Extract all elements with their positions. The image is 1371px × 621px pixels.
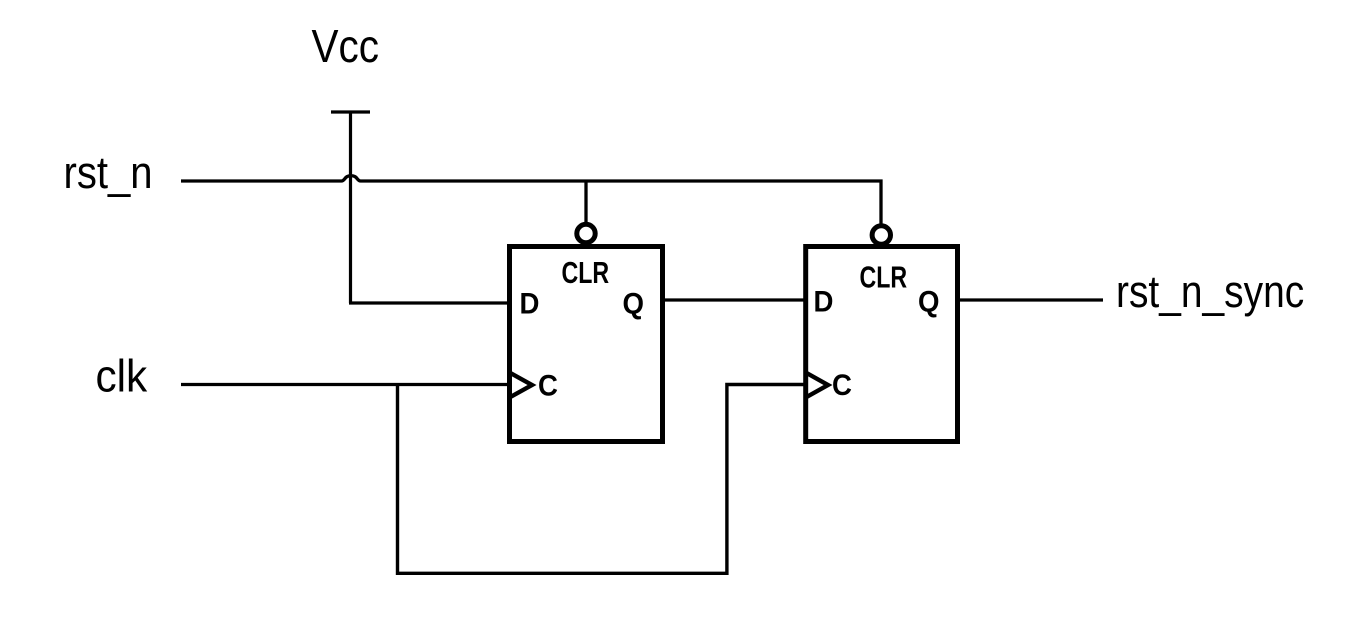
svg-text:clk: clk bbox=[96, 351, 148, 401]
svg-text:Q: Q bbox=[918, 285, 939, 318]
pin label Q (U2) bbox=[918, 285, 939, 318]
wire rst_n horizontal with hop over Vcc stub bbox=[181, 176, 881, 224]
pin label CLR (U1) bbox=[562, 255, 610, 290]
svg-text:CLR: CLR bbox=[860, 259, 908, 294]
net label clk bbox=[96, 351, 148, 401]
svg-text:C: C bbox=[832, 369, 852, 402]
wire clk to C of U1 bbox=[181, 383, 510, 386]
flip-flop U2 body bbox=[806, 247, 958, 442]
net label rst_n bbox=[64, 148, 153, 199]
bubble CLR U2 bbox=[872, 226, 890, 244]
wire Q1 to D2 bbox=[662, 298, 806, 301]
svg-text:CLR: CLR bbox=[562, 255, 610, 290]
pin label Q (U1) bbox=[623, 287, 644, 320]
power symbol Vcc T-bar bbox=[331, 110, 370, 113]
svg-text:C: C bbox=[538, 369, 558, 402]
power label Vcc bbox=[312, 22, 379, 73]
pin label D (U1) bbox=[520, 287, 540, 320]
svg-text:D: D bbox=[814, 285, 834, 318]
wire Q2 output bbox=[957, 298, 1103, 301]
clock triangle (U1) bbox=[510, 373, 533, 398]
wire Vcc stub vertical bbox=[349, 112, 352, 303]
svg-text:rst_n: rst_n bbox=[64, 148, 153, 199]
svg-text:Q: Q bbox=[623, 287, 644, 320]
bubble CLR U1 bbox=[577, 224, 595, 242]
net label rst_n_sync bbox=[1116, 266, 1304, 316]
svg-text:rst_n_sync: rst_n_sync bbox=[1116, 266, 1304, 316]
svg-text:D: D bbox=[520, 287, 540, 320]
pin label D (U2) bbox=[814, 285, 834, 318]
pin label C (U2) bbox=[832, 369, 852, 402]
wire clk branch to C of U2 bbox=[398, 385, 807, 574]
svg-text:Vcc: Vcc bbox=[312, 22, 379, 73]
wire rst_n branch down to CLR bubble of U1 bbox=[584, 181, 587, 223]
clock triangle (U2) bbox=[806, 373, 828, 398]
wire Vcc corner to D input of U1 bbox=[349, 301, 510, 304]
pin label CLR (U2) bbox=[860, 259, 908, 294]
flip-flop U1 body bbox=[510, 247, 663, 442]
pin label C (U1) bbox=[538, 369, 558, 402]
